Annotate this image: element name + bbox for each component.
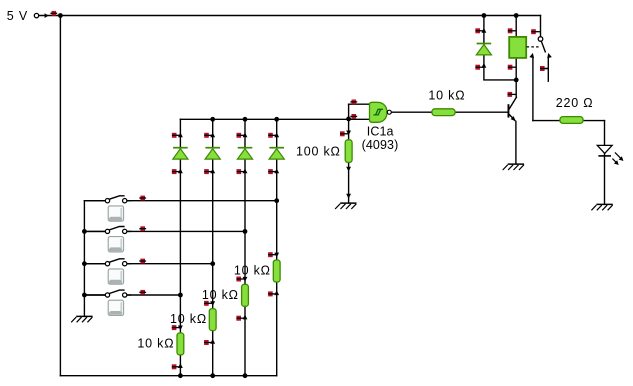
resistor 100k bbox=[340, 131, 352, 199]
node switch common row 2 junction bbox=[82, 229, 87, 234]
diode D2 bbox=[204, 132, 220, 174]
ground below switch common bbox=[71, 316, 92, 322]
relay coil K1 bbox=[508, 28, 526, 69]
svg-text:10 kΩ: 10 kΩ bbox=[428, 89, 465, 103]
wire diode column 4 bbox=[276, 119, 278, 375]
resistor 10k base bbox=[432, 109, 455, 116]
svg-text:5 V: 5 V bbox=[7, 9, 28, 23]
node bus column 4 junction bbox=[274, 117, 279, 122]
svg-text:10 kΩ: 10 kΩ bbox=[234, 264, 271, 278]
resistor R3 10k column 3 bbox=[236, 277, 248, 321]
node bus column 3 junction bbox=[243, 117, 248, 122]
label 5 V bbox=[7, 9, 28, 23]
wire relay coil branch to collector bbox=[515, 16, 517, 98]
resistor R2 10k column 2 bbox=[204, 301, 216, 345]
node switch common row 3 junction bbox=[82, 261, 87, 266]
label 100 kOhm bbox=[296, 144, 341, 158]
wire switch common to ground bbox=[83, 201, 85, 316]
wire diode column 3 bbox=[244, 119, 246, 375]
label 220 Ohm bbox=[556, 96, 594, 110]
wire diode column 2 bbox=[212, 119, 214, 375]
wire diode column 1 bbox=[179, 119, 181, 375]
diode D4 bbox=[268, 132, 284, 174]
node 5V rail left junction bbox=[58, 13, 63, 18]
node row 1 column 4 junction bbox=[274, 198, 279, 203]
svg-text:10 kΩ: 10 kΩ bbox=[137, 336, 174, 350]
wire 220 ohm horizontal bbox=[533, 120, 605, 122]
op-amp IC1a schmitt NAND gate bbox=[350, 100, 391, 123]
switch S4 bbox=[87, 290, 147, 316]
wire gate input bus bbox=[180, 118, 369, 120]
wire flyback diode branch bbox=[484, 16, 516, 80]
wire bottom 5V rail bbox=[60, 375, 276, 377]
switch S2 bbox=[87, 226, 147, 252]
ground below LED bbox=[591, 204, 612, 210]
wire relay switch common bbox=[540, 16, 542, 37]
node row 4 column 1 junction bbox=[178, 293, 183, 298]
switch S3 bbox=[87, 259, 147, 285]
label 10 kOhm R4 bbox=[234, 264, 271, 278]
wire gate input tie vertical bbox=[348, 104, 350, 119]
relay switch K1 contacts bbox=[527, 29, 552, 71]
node gate input bus junction bbox=[346, 117, 351, 122]
wire LED branch to ground bbox=[604, 121, 606, 204]
wire emitter to ground bbox=[515, 121, 517, 163]
node flyback diode top junction bbox=[482, 13, 487, 18]
wire switch row 4 bbox=[84, 294, 180, 296]
svg-text:IC1a: IC1a bbox=[367, 124, 394, 138]
node bottom rail column 3 junction bbox=[243, 373, 248, 378]
wire relay NC stub bbox=[547, 58, 549, 82]
node row 2 column 3 junction bbox=[243, 229, 248, 234]
resistor R1 10k column 1 bbox=[172, 325, 184, 369]
label (4093) bbox=[362, 138, 399, 152]
label 10 kOhm R2 bbox=[170, 312, 207, 326]
wire switch row 3 bbox=[84, 263, 212, 265]
diode D1 bbox=[172, 132, 188, 174]
resistor R4 10k column 4 bbox=[268, 252, 280, 296]
node row 3 column 2 junction bbox=[210, 261, 215, 266]
svg-text:220 Ω: 220 Ω bbox=[556, 96, 594, 110]
svg-text:10 kΩ: 10 kΩ bbox=[202, 288, 239, 302]
resistor 220 bbox=[560, 117, 583, 124]
svg-text:100 kΩ: 100 kΩ bbox=[296, 144, 341, 158]
switch S1 bbox=[87, 196, 147, 222]
svg-text:(4093): (4093) bbox=[362, 138, 399, 152]
wire switch row 1 bbox=[84, 200, 276, 202]
wire gate output to transistor base bbox=[391, 111, 507, 113]
ground below 100k bbox=[335, 203, 356, 209]
svg-text:10 kΩ: 10 kΩ bbox=[170, 312, 207, 326]
label 10 kOhm R3 bbox=[202, 288, 239, 302]
node relay coil top junction bbox=[514, 13, 519, 18]
diode D3 bbox=[237, 132, 253, 174]
diode D5 flyback bbox=[475, 28, 491, 70]
node bottom rail column 2 junction bbox=[210, 373, 215, 378]
ground below emitter bbox=[503, 164, 524, 170]
wire switch row 2 bbox=[84, 230, 245, 232]
LED D6 bbox=[597, 145, 623, 165]
node bottom rail column 1 junction bbox=[178, 373, 183, 378]
wire 100k branch to ground bbox=[348, 119, 350, 202]
node coil bottom collector junction bbox=[514, 78, 519, 83]
transistor Q1 bbox=[508, 92, 517, 121]
node switch common row 4 junction bbox=[82, 293, 87, 298]
label IC1a bbox=[367, 124, 394, 138]
terminal 5V bbox=[34, 11, 57, 18]
node bus column 2 junction bbox=[210, 117, 215, 122]
wire relay NO throw down to 220 ohm bbox=[532, 58, 534, 121]
wire gate upper input pin bbox=[349, 103, 370, 105]
label 10 kOhm base bbox=[428, 89, 465, 103]
wire top +5V rail bbox=[39, 15, 541, 17]
label 10 kOhm R1 bbox=[137, 336, 174, 350]
wire left vertical 5V feed bbox=[59, 16, 61, 376]
